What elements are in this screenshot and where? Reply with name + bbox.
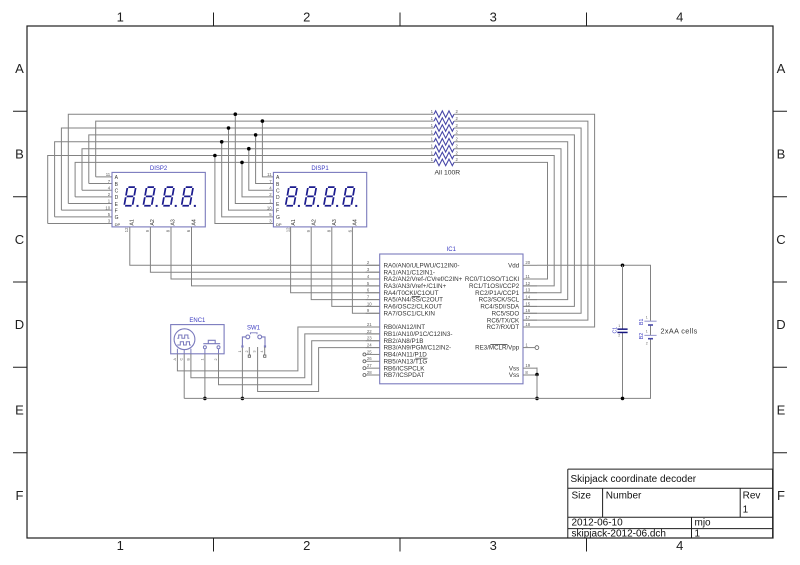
svg-text:B2: B2 — [639, 333, 645, 339]
junction ENC1 button pin 1 on ground rail — [203, 397, 207, 401]
svg-text:11: 11 — [525, 274, 530, 279]
DISP1 digit-select pin name A3 — [332, 219, 338, 225]
svg-text:D: D — [276, 195, 280, 201]
wire net seg-C: resistor right then down to IC1 pin RC — [454, 149, 561, 293]
wire DISP2 A3 to IC1 RA2 — [171, 227, 380, 279]
DISP1 bottom pin number 12 — [286, 227, 291, 232]
svg-text:21: 21 — [367, 322, 372, 327]
DISP1 pin number 5 — [269, 212, 272, 217]
DISP2 segment pin name F — [115, 208, 118, 214]
DISP2 pin number 5 — [108, 212, 111, 217]
IC1 pin 25 (RB4) stub — [363, 353, 380, 356]
IC1 pin number 16 — [525, 308, 530, 313]
svg-text:RC7/RX/DT: RC7/RX/DT — [487, 324, 520, 331]
svg-text:1: 1 — [646, 330, 648, 334]
junction node seg-F branch to DISP1 — [227, 126, 231, 130]
svg-text:15: 15 — [525, 301, 530, 306]
svg-text:Vss: Vss — [509, 372, 519, 379]
svg-text:4: 4 — [676, 10, 683, 25]
svg-text:G: G — [115, 215, 119, 221]
IC1 pin number 1 — [525, 342, 528, 347]
IC1 pin name RC6 — [487, 317, 520, 324]
DISP2 pin number 1 — [108, 199, 111, 204]
svg-text:1: 1 — [695, 529, 701, 540]
svg-text:10: 10 — [367, 301, 372, 306]
DISP2 pin number 4 — [108, 185, 111, 190]
DISP2 bottom pin number 12 — [124, 227, 129, 232]
DISP1 bottom pin number 9 — [306, 229, 311, 232]
svg-text:4: 4 — [676, 538, 683, 553]
IC1 pin number 5 — [367, 281, 370, 286]
resistor R6 (100R) on net seg-C — [431, 144, 459, 153]
svg-text:mjo: mjo — [695, 518, 712, 529]
IC1 pin 1 (RE3) stub — [523, 346, 539, 350]
DISP2 reference label — [150, 166, 168, 172]
IC1 pin name RA3 — [384, 283, 447, 290]
rotary encoder ENC1 — [171, 318, 224, 361]
wire ground rail — [184, 339, 650, 399]
SW1 contact circles and actuator — [246, 333, 262, 339]
wire net seg-E: into DISP2 pin E — [68, 203, 112, 205]
wire net seg-G: DISP2 pin G up and right to resistor — [55, 142, 434, 217]
IC1 pin name RE3 — [475, 345, 520, 352]
IC1 pin 3 (RA1) stub — [366, 271, 380, 273]
svg-text:18: 18 — [525, 322, 530, 327]
IC1 pin 14 (RC3) stub — [523, 299, 537, 301]
IC1 pin number 27 — [367, 363, 372, 368]
IC1 pin name RA2 — [384, 276, 463, 283]
wire net seg-B: resistor right then down to IC1 pin RC — [454, 135, 574, 307]
junction node seg-E branch to DISP1 — [234, 112, 238, 116]
svg-text:A2: A2 — [312, 219, 318, 225]
DISP1 digit-select pin name A4 — [353, 219, 359, 225]
resistor R4 (100R) on net seg-B — [431, 130, 459, 139]
junction node seg-G branch to DISP1 — [220, 140, 224, 144]
svg-text:D: D — [115, 195, 119, 201]
svg-text:IC1: IC1 — [447, 247, 457, 253]
IC1 pin name RB7 — [384, 372, 425, 379]
junction Vdd net to C1 — [621, 264, 625, 268]
IC1 pin name Vss — [509, 372, 519, 379]
border row label E (right) — [777, 403, 786, 418]
svg-text:13: 13 — [525, 288, 530, 293]
IC1 pin number 22 — [367, 329, 372, 334]
border row label F (left) — [16, 488, 24, 503]
title block: Rev label — [743, 491, 761, 502]
border column label 2 (bottom) — [303, 538, 310, 553]
title block: revision number 1 — [743, 505, 749, 516]
DISP2 bottom pin number 9 — [145, 229, 150, 232]
wire DISP1 A4 to IC1 RA7 — [352, 227, 379, 313]
IC1 pin number 14 — [525, 294, 530, 299]
IC1 pin name RC0 — [465, 276, 520, 283]
DISP2 pin number 11 — [106, 172, 111, 177]
IC1 pin name RC7 — [487, 324, 520, 331]
svg-text:F: F — [16, 488, 24, 503]
B1 reference label — [639, 319, 645, 325]
wire net seg-C: branch down to DISP1 pin C — [249, 149, 274, 191]
svg-text:Rev: Rev — [743, 491, 761, 502]
DISP1 pin number 1 — [269, 199, 272, 204]
IC1 pin 10 (RA6) stub — [366, 305, 380, 307]
svg-text:4: 4 — [260, 351, 264, 353]
IC1 pin 23 (RB2) stub — [366, 340, 380, 342]
battery cell B1 — [639, 315, 656, 325]
IC1 pin number 25 — [367, 349, 372, 354]
title block: filename skipjack-2012-06.dch — [572, 529, 667, 540]
resistor R7 (100R) on net seg-DP — [431, 150, 459, 159]
svg-text:A3: A3 — [171, 219, 177, 225]
border row label E (left) — [15, 403, 24, 418]
svg-text:RE3/MCLR/Vpp: RE3/MCLR/Vpp — [475, 345, 520, 352]
DISP1 reference label — [311, 166, 329, 172]
IC1 pin 21 (RB0) stub — [366, 326, 380, 328]
wire net seg-A: into DISP2 pin A — [96, 176, 112, 178]
IC1 pin 18 (RC7) stub — [523, 326, 537, 328]
wire between battery cells B1 and B2 — [650, 325, 652, 335]
title block — [568, 469, 773, 538]
svg-text:23: 23 — [367, 336, 372, 341]
svg-text:1: 1 — [117, 10, 124, 25]
ENC1 pin label C — [180, 358, 184, 361]
IC1 pin 12 (RC1) stub — [523, 285, 537, 287]
IC1 pin 7 (RA5) stub — [366, 299, 380, 301]
wire IC1 Vss pin 19 join to pin 8 — [536, 368, 538, 375]
svg-text:11: 11 — [267, 172, 272, 177]
IC1 pin 8 (Vss) stub — [523, 374, 537, 376]
svg-text:10: 10 — [105, 205, 110, 210]
IC1 pin name RB2 — [384, 338, 424, 345]
title block: author mjo — [695, 518, 712, 529]
IC1 pin number 6 — [367, 288, 370, 293]
wire net seg-DP: into DISP2 pin DP — [48, 222, 112, 224]
junction node seg-B branch to DISP1 — [254, 133, 258, 137]
DISP1 segment pin name F — [276, 208, 279, 214]
wire ENC1 pin B to IC1 RB1 — [191, 334, 380, 378]
IC1 pin number 18 — [525, 322, 530, 327]
IC1 pin name RC3 — [479, 297, 520, 304]
DISP2 digit-select pin name A2 — [150, 219, 156, 225]
IC1 pin name RA7 — [384, 310, 436, 317]
svg-text:1: 1 — [646, 315, 648, 319]
svg-text:1: 1 — [200, 359, 204, 361]
wire net seg-D: branch down to DISP1 pin D — [242, 162, 273, 196]
border column label 1 (top) — [117, 10, 124, 25]
DISP1 segment pin name G — [276, 215, 280, 221]
IC1 pin number 15 — [525, 301, 530, 306]
svg-text:A1: A1 — [291, 219, 297, 225]
wire net seg-G: branch down to DISP1 pin G — [222, 142, 274, 217]
svg-text:17: 17 — [525, 315, 530, 320]
ENC1 pin label A — [173, 358, 177, 361]
wire net seg-D: DISP2 pin D up and right to resistor — [75, 162, 434, 196]
IC1 pin name RC1 — [469, 283, 520, 290]
IC1 pin number 3 — [367, 267, 370, 272]
wire net seg-F: branch down to DISP1 pin F — [229, 128, 274, 210]
resistor R5 (100R) on net seg-G — [431, 137, 459, 146]
svg-text:Skipjack coordinate decoder: Skipjack coordinate decoder — [571, 474, 697, 485]
C1 pin number 1 — [618, 324, 620, 328]
DISP2 digit-select pin name A1 — [130, 219, 136, 225]
border row label D (right) — [776, 317, 785, 332]
wire DISP1 A1 to IC1 RA4 — [291, 227, 380, 293]
resistor network value label: All 100R — [435, 170, 461, 177]
IC1 pin 22 (RB1) stub — [366, 333, 380, 335]
junction SW1 pin 1 on ground rail — [241, 397, 245, 401]
svg-text:12: 12 — [525, 281, 530, 286]
svg-text:A2: A2 — [150, 219, 156, 225]
ENC1 pin label 1 — [200, 359, 204, 361]
svg-text:22: 22 — [367, 329, 372, 334]
svg-text:Number: Number — [606, 491, 642, 502]
svg-text:RB7/ICSPDAT: RB7/ICSPDAT — [384, 372, 425, 379]
svg-text:16: 16 — [525, 308, 530, 313]
wire ENC1 button pin 1 down to ground rail — [204, 354, 206, 399]
svg-text:skipjack-2012-06.dch: skipjack-2012-06.dch — [572, 529, 667, 540]
border row label A (left) — [15, 61, 24, 76]
IC1 pin name RB6 — [384, 365, 426, 372]
DISP2 segment pin name G — [115, 215, 119, 221]
DISP2 pin number 2 — [108, 192, 111, 197]
DISP1 bottom pin number 8 — [327, 229, 332, 232]
IC1 active-low overlines (SS, T1G, MCLR) — [412, 296, 508, 358]
svg-text:1: 1 — [618, 324, 620, 328]
SW1 terminal leads — [241, 337, 266, 348]
wire Vdd net down to C1 top plate — [622, 265, 624, 328]
IC1 pin number 10 — [367, 301, 372, 306]
IC1 pin 11 (RC0) stub — [523, 278, 537, 280]
svg-text:1: 1 — [117, 538, 124, 553]
svg-text:20: 20 — [525, 260, 530, 265]
IC1 pin number 9 — [367, 308, 370, 313]
DISP2 bottom pin number 6 — [186, 229, 191, 232]
svg-text:DP: DP — [276, 222, 282, 227]
battery value label: 2xAA cells — [661, 326, 698, 335]
IC1 pin name RC5 — [492, 310, 520, 317]
wire net seg-D: into DISP2 pin D — [75, 196, 112, 198]
IC1 pin 6 (RA4) stub — [366, 292, 380, 294]
IC1 pin 17 (RC6) stub — [523, 319, 537, 321]
svg-text:24: 24 — [367, 342, 372, 347]
DISP1 bottom pin number 6 — [347, 229, 352, 232]
IC1 reference label — [447, 247, 457, 253]
B2 reference label — [639, 333, 645, 339]
IC1 pin name RA1 — [384, 269, 435, 276]
IC1 pin number 28 — [367, 370, 372, 375]
4-digit 7-segment display DISP2 — [105, 166, 205, 233]
border column label 4 (top) — [676, 10, 683, 25]
IC1 pin number 17 — [525, 315, 530, 320]
wire SW1 pin 3 to IC1 RB3 — [258, 347, 380, 392]
border row label C (left) — [15, 232, 24, 247]
IC1 pin 27 (RB6) stub — [363, 367, 380, 370]
DISP2 segment pin name C — [115, 189, 119, 195]
ENC1 encoder circle with quadrature waveforms — [174, 329, 195, 350]
IC1 pin 9 (RA7) stub — [366, 312, 380, 314]
DISP2 segment pin name B — [115, 182, 119, 188]
DISP2 pin number 3 — [108, 219, 111, 224]
svg-text:SW1: SW1 — [247, 325, 261, 331]
resistor network R1-R8, all 100R, between segment nets and IC1 port C — [431, 109, 459, 166]
svg-text:Size: Size — [572, 491, 592, 502]
svg-text:E: E — [777, 403, 786, 418]
svg-text:Vdd: Vdd — [508, 262, 520, 269]
wire net seg-C: DISP2 pin C up and right to resistor — [82, 149, 434, 191]
title block: Size label — [572, 491, 592, 502]
DISP1 segment pin name DP — [276, 222, 282, 227]
C1 reference label — [612, 327, 618, 334]
junction node seg-D branch to DISP1 — [240, 161, 244, 165]
ENC1 pin label B — [186, 358, 190, 361]
resistor R1 (100R) on net seg-E — [431, 109, 459, 117]
SW1 pin number 2 — [245, 351, 249, 353]
svg-text:A4: A4 — [353, 219, 359, 225]
IC1 pin name RB0 — [384, 324, 426, 331]
DISP2 pin number 10 — [105, 205, 110, 210]
svg-text:27: 27 — [367, 363, 372, 368]
wire net seg-C: into DISP2 pin C — [82, 189, 112, 191]
wire ENC1 pin A to IC1 RB0 — [177, 327, 379, 371]
DISP1 body outline — [273, 172, 366, 227]
svg-text:D: D — [15, 317, 24, 332]
SW1 pin number 3 — [253, 351, 257, 353]
svg-text:C: C — [276, 189, 280, 195]
resistor R8 (100R) on net seg-D — [431, 157, 459, 166]
IC1 pin number 12 — [525, 281, 530, 286]
resistor R2 (100R) on net seg-A — [431, 116, 459, 124]
svg-text:B: B — [15, 147, 24, 162]
wire net seg-G: resistor right then down to IC1 pin RC — [454, 142, 568, 300]
border row label D (left) — [15, 317, 24, 332]
svg-text:12: 12 — [286, 227, 291, 232]
DISP2 pin number 7 — [108, 179, 111, 184]
svg-text:A: A — [15, 61, 24, 76]
svg-text:3: 3 — [490, 538, 497, 553]
svg-text:B: B — [777, 147, 786, 162]
capacitor C1 — [612, 324, 627, 337]
IC1 pin 4 (RA2) stub — [366, 278, 380, 280]
wire net seg-A: branch down to DISP1 pin A — [262, 121, 273, 177]
wire net seg-D: resistor right then down to IC1 pin RC — [454, 162, 548, 279]
title block: schematic title text — [571, 474, 697, 485]
svg-text:25: 25 — [367, 349, 372, 354]
DISP1 digit-select pin name A2 — [312, 219, 318, 225]
IC1 pin name RB5 — [384, 358, 428, 365]
IC1 pin 28 (RB7) stub — [363, 374, 380, 377]
DISP2 body outline — [112, 172, 205, 227]
ENC1 internal pin leads — [177, 349, 218, 354]
svg-text:26: 26 — [367, 356, 372, 361]
IC1 pin name RC4 — [480, 304, 520, 311]
IC1 pin number 8 — [525, 370, 528, 375]
svg-text:1: 1 — [743, 505, 749, 516]
DISP1 segment pin name C — [276, 189, 280, 195]
DISP2 digit-select pin name A3 — [171, 219, 177, 225]
svg-text:A3: A3 — [332, 219, 338, 225]
IC1 pin name Vss — [509, 365, 519, 372]
border row label F (right) — [777, 488, 785, 503]
C1 pin number 2 — [618, 334, 620, 338]
svg-text:E: E — [15, 403, 24, 418]
IC1 pin 26 (RB5) stub — [363, 360, 380, 363]
DISP1 segment pin name E — [276, 202, 280, 208]
SW1 reference label — [247, 325, 261, 331]
IC1 pin name RC2 — [475, 290, 520, 297]
svg-text:2: 2 — [245, 351, 249, 353]
junction node seg-A branch to DISP1 — [261, 119, 265, 123]
svg-text:2xAA cells: 2xAA cells — [661, 326, 698, 335]
svg-text:2: 2 — [646, 342, 648, 346]
DISP1 pin number 4 — [269, 185, 272, 190]
svg-text:B1: B1 — [639, 319, 645, 325]
svg-text:14: 14 — [525, 294, 530, 299]
wire net seg-F: resistor right then down to IC1 pin RC — [454, 128, 581, 313]
IC1 pin name RB3 — [384, 345, 452, 352]
wire net seg-A: resistor right then down to IC1 pin RC — [454, 121, 588, 320]
4-digit 7-segment display DISP1 — [267, 166, 367, 233]
svg-text:12: 12 — [124, 227, 129, 232]
title block: sheet number 1 — [695, 529, 701, 540]
svg-text:2: 2 — [303, 538, 310, 553]
wire DISP2 A4 to IC1 RA3 — [192, 227, 380, 286]
IC1 pin name RB4 — [384, 352, 428, 359]
svg-text:G: G — [276, 215, 280, 221]
IC1 pin 5 (RA3) stub — [366, 285, 380, 287]
border row label B (left) — [15, 147, 24, 162]
svg-text:A1: A1 — [130, 219, 136, 225]
DISP1 digit-select pin name A1 — [291, 219, 297, 225]
IC1 pin name RB1 — [384, 331, 453, 338]
svg-text:ENC1: ENC1 — [189, 318, 206, 324]
wire net seg-G: into DISP2 pin G — [55, 216, 112, 218]
SW1 unconnected pins 2 and 4 — [248, 347, 266, 357]
B2 pin number 2 — [646, 342, 648, 346]
border row label A (right) — [777, 61, 786, 76]
IC1 pin name RA0 — [384, 262, 460, 269]
svg-text:3: 3 — [253, 351, 257, 353]
wire DISP2 A2 to IC1 RA1 — [150, 227, 379, 272]
DISP2 digits 8.8.8.8. — [124, 187, 196, 207]
wire DISP1 A2 to IC1 RA5 — [311, 227, 380, 300]
svg-text:A: A — [777, 61, 786, 76]
svg-text:All 100R: All 100R — [435, 170, 461, 177]
svg-text:F: F — [276, 208, 279, 214]
IC1 pin 24 (RB3) stub — [366, 347, 380, 349]
IC1 pin number 20 — [525, 260, 530, 265]
svg-text:C: C — [15, 232, 24, 247]
title block: Number label — [606, 491, 642, 502]
IC1 body outline — [380, 254, 523, 384]
ENC1 push-button symbol — [203, 340, 220, 348]
junction C1 on ground rail — [621, 397, 625, 401]
border column label 1 (bottom) — [117, 538, 124, 553]
IC1 pin number 13 — [525, 288, 530, 293]
junction Vss on ground rail — [535, 397, 539, 401]
IC1 pin number 7 — [367, 294, 370, 299]
IC1 pin name RA6 — [384, 304, 443, 311]
wire ENC1 button pin 2 to IC1 RB2 — [219, 341, 380, 385]
border column label 2 (top) — [303, 10, 310, 25]
IC1 pin name RA5 — [384, 297, 444, 304]
IC1 pin number 4 — [367, 274, 370, 279]
DISP1 digits 8.8.8.8. — [286, 187, 358, 207]
IC1 pin number 23 — [367, 336, 372, 341]
SW1 pin number 4 — [260, 351, 264, 353]
DISP1 pin number 2 — [269, 192, 272, 197]
IC1 pin number 24 — [367, 342, 372, 347]
IC1 pin 13 (RC2) stub — [523, 292, 537, 294]
border column label 4 (bottom) — [676, 538, 683, 553]
